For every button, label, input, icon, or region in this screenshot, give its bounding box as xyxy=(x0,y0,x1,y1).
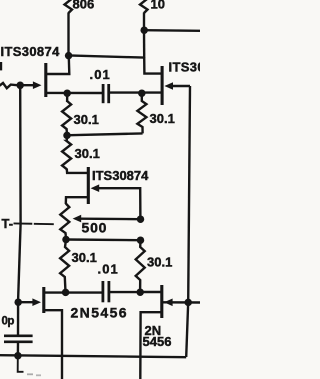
node M (mid-left junction) xyxy=(63,132,71,140)
capacitor C3 bottom lead xyxy=(17,343,20,353)
wire bottom rail xyxy=(0,355,186,357)
wire C2 to node D5 xyxy=(109,291,140,293)
node PB (pot bottom) xyxy=(62,236,70,244)
resistor R5 30.1 (bottom right) xyxy=(136,240,145,290)
pot wiper arrow xyxy=(73,215,82,223)
svg-text:30.1: 30.1 xyxy=(74,112,99,127)
wire R3 to node M xyxy=(67,133,143,135)
gate arrow of Q2 xyxy=(164,82,173,90)
wire pot bottom line xyxy=(66,238,141,241)
Q5 drain lead xyxy=(140,291,162,293)
transistor Q2 channel bar xyxy=(161,66,164,105)
svg-text:ITS30874: ITS30874 xyxy=(1,44,61,59)
svg-text:ITS308: ITS308 xyxy=(169,60,201,75)
capacitor C3 top lead xyxy=(17,304,20,335)
Q3 drain lead xyxy=(67,169,89,173)
Q3 source lead xyxy=(66,197,89,204)
Q3 gate wire xyxy=(99,188,140,220)
node W (wiper junction) xyxy=(137,215,145,223)
right rail (Q2 gate down to bottom) xyxy=(186,86,190,357)
svg-text:10: 10 xyxy=(151,0,165,12)
Q2 drain lead xyxy=(144,57,162,74)
node A (drain of Q1) xyxy=(65,52,73,60)
node D4 (drain of Q4) xyxy=(62,289,70,297)
svg-text:2N5456: 2N5456 xyxy=(71,305,128,321)
edge mark xyxy=(0,62,2,70)
resistor R2 30.1 (left lower) xyxy=(62,135,71,170)
gate arrow of Q3 xyxy=(91,184,100,192)
transistor Q5 channel bar xyxy=(160,285,163,318)
gate arrow of Q5 xyxy=(164,299,173,307)
wire stub below node xyxy=(18,357,24,372)
potentiometer 500 body xyxy=(60,204,69,237)
wire T- line xyxy=(14,222,58,225)
resistor 806 (cut off at top) xyxy=(65,0,73,13)
svg-text:30.1: 30.1 xyxy=(150,111,175,126)
wire output to right edge xyxy=(144,29,201,32)
svg-text:ITS30874: ITS30874 xyxy=(92,168,149,183)
capacitor C1 right plate xyxy=(107,84,110,103)
pot wiper wire xyxy=(81,217,140,220)
Q4 drain wire to C2 xyxy=(44,291,103,293)
capacitor C2 right plate xyxy=(108,281,111,302)
node B (drain of Q2 / output node) xyxy=(140,26,148,34)
node G4 (gate junction) xyxy=(14,298,22,306)
node GND (bottom-left junction) xyxy=(14,352,22,360)
transistor Q4 channel bar xyxy=(42,287,45,313)
wire 806 to node A xyxy=(67,13,69,54)
left rail (input down) xyxy=(18,87,21,300)
node S2 (source of Q2) xyxy=(138,89,146,97)
wire gate of Q1 xyxy=(23,84,35,86)
svg-text:.01: .01 xyxy=(90,67,111,82)
input squiggle from left edge xyxy=(0,83,17,88)
svg-text:500: 500 xyxy=(82,220,108,236)
wire node A to node B column xyxy=(69,55,145,57)
Q1 source lead / wire to C1 xyxy=(46,92,103,94)
node PB2 (right end) xyxy=(137,236,145,244)
svg-text:30.1: 30.1 xyxy=(75,146,100,161)
Q5 gate wire xyxy=(163,301,201,304)
capacitor C3 bottom plate xyxy=(4,340,33,343)
resistor R1 30.1 (left upper) xyxy=(62,101,71,133)
speck 1 xyxy=(27,373,33,375)
Q4 gate wire xyxy=(21,301,33,303)
svg-text:806: 806 xyxy=(73,0,95,12)
svg-text:30.1: 30.1 xyxy=(72,250,97,265)
speck 2 xyxy=(36,374,41,376)
wire C1 to node S2 xyxy=(109,91,142,93)
svg-text:30.1: 30.1 xyxy=(147,255,172,270)
resistor R4 30.1 (bottom left) xyxy=(60,240,69,291)
capacitor C1 left plate xyxy=(102,84,105,103)
wire S1 to R1 xyxy=(66,95,68,102)
wire 10 to node B xyxy=(143,13,145,29)
capacitor C2 left plate xyxy=(102,281,105,302)
Q2 gate wire xyxy=(173,85,190,87)
svg-text:T-: T- xyxy=(2,216,14,231)
resistor 10 (cut off at top) xyxy=(140,0,148,13)
svg-text:5456: 5456 xyxy=(143,334,172,349)
Q4 source lead xyxy=(44,310,62,379)
svg-text:0p: 0p xyxy=(2,316,15,328)
node S1 (source of Q1) xyxy=(63,89,71,97)
node G1 (gate junction) xyxy=(16,82,24,90)
transistor Q1 channel bar xyxy=(44,63,47,97)
svg-text:.01: .01 xyxy=(98,262,119,277)
transistor Q3 channel bar xyxy=(87,167,90,204)
Q1 drain lead xyxy=(46,57,70,74)
Q5 source lead xyxy=(140,312,162,379)
capacitor C3 top plate xyxy=(4,334,33,337)
gate arrow of Q1 xyxy=(33,81,42,89)
wire node B down xyxy=(143,30,146,57)
node D5 (drain of Q5) xyxy=(136,288,144,296)
gate arrow of Q4 xyxy=(32,298,41,306)
resistor R3 30.1 (right) xyxy=(137,95,146,133)
node G5 (gate on right rail) xyxy=(184,299,192,307)
Q2 source lead xyxy=(142,91,162,93)
